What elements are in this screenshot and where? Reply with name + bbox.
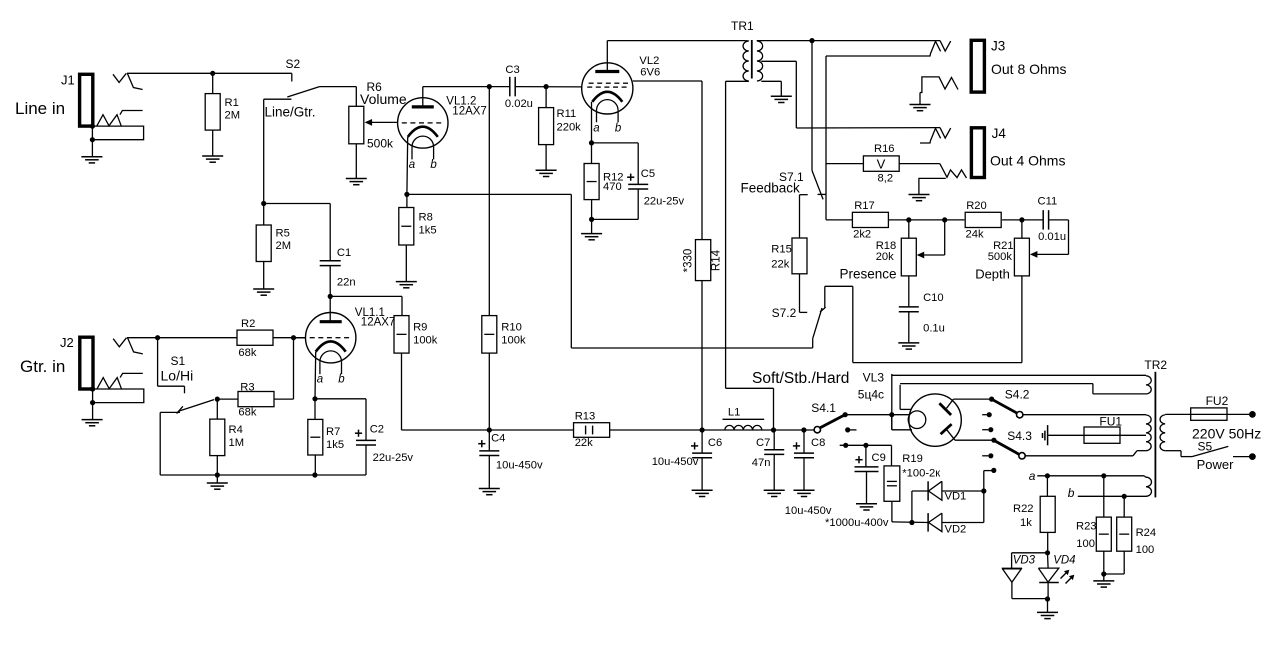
node C6 (700, 427, 705, 432)
switch S4.2 (989, 397, 994, 402)
svg-text:12AX7: 12AX7 (361, 317, 396, 329)
ground R6 (346, 178, 367, 180)
wire VL1.2 cathode to R8 (406, 137, 409, 195)
wire VD node to S4.3 contact (983, 471, 985, 523)
svg-text:470: 470 (603, 181, 622, 193)
svg-text:100k: 100k (413, 335, 438, 347)
svg-text:J3: J3 (991, 39, 1005, 54)
svg-text:Volume: Volume (360, 91, 407, 107)
svg-text:b: b (430, 159, 437, 171)
svg-text:TR1: TR1 (731, 19, 754, 33)
capacitor C6 10u-450v (701, 430, 703, 453)
wire heater b (1078, 495, 1146, 497)
svg-text:R22: R22 (1013, 503, 1034, 515)
wire VL2 plate to TR1 (606, 41, 608, 72)
switch S1 Lo/Hi (157, 338, 159, 387)
capacitor C5 22u-25v (592, 142, 639, 144)
svg-text:R11: R11 (557, 108, 577, 120)
svg-text:Out 8 Ohms: Out 8 Ohms (991, 61, 1066, 77)
svg-text:Feedback: Feedback (741, 181, 801, 196)
svg-text:1k: 1k (1020, 517, 1032, 529)
svg-text:R9: R9 (413, 322, 427, 334)
ground C8 (794, 489, 815, 491)
svg-text:2M: 2M (225, 110, 241, 122)
svg-text:b: b (338, 374, 345, 386)
resistor R5 2M (263, 204, 265, 226)
svg-text:R2: R2 (241, 318, 255, 330)
svg-text:24k: 24k (966, 229, 984, 241)
ground R23/R24 (1103, 574, 1105, 581)
resistor R16 8,2 (826, 163, 863, 165)
capacitor C8 10u-450v (803, 430, 805, 453)
svg-text:100: 100 (1076, 538, 1095, 550)
svg-text:C3: C3 (505, 64, 519, 76)
wire J2 to R2 (127, 337, 238, 339)
switch S7.2 (813, 308, 822, 339)
svg-text:0.02u: 0.02u (505, 98, 533, 110)
wire R2 to grid (273, 337, 306, 339)
beam tetrode VL2 6V6 (582, 63, 633, 114)
svg-text:22k: 22k (575, 437, 593, 449)
resistor R2 68k (237, 330, 273, 345)
svg-text:22n: 22n (337, 277, 356, 289)
ground R5 (253, 288, 274, 290)
svg-text:C8: C8 (811, 437, 825, 449)
wire VL2 screen to R14 (633, 80, 702, 82)
jack J1 Line in (80, 74, 93, 126)
svg-text:Presence: Presence (840, 267, 897, 282)
S4.1 spare contact (845, 427, 850, 432)
chassis ground FU1 (1047, 425, 1049, 445)
ground R12 (581, 233, 602, 235)
svg-text:*1000u-400v: *1000u-400v (825, 517, 889, 529)
svg-text:22k: 22k (771, 259, 789, 271)
J4 ring contact (940, 164, 967, 178)
svg-text:R10: R10 (501, 322, 522, 334)
wire grid node down to R3 (293, 338, 295, 399)
svg-text:68k: 68k (238, 347, 256, 359)
svg-text:S1: S1 (171, 354, 186, 368)
resistor R22 1k (1046, 476, 1048, 497)
resistor R14 *330 (695, 240, 710, 281)
svg-text:S4.3: S4.3 (1007, 429, 1032, 443)
S4.2 spare contacts (987, 412, 992, 417)
VD4 arrows (1061, 573, 1067, 579)
svg-text:100: 100 (1136, 544, 1155, 556)
wire S7.2 contact loop to R21 (825, 285, 853, 287)
svg-text:Gtr. in: Gtr. in (20, 357, 65, 376)
svg-text:68k: 68k (238, 407, 256, 419)
capacitor C3 0.02u (509, 77, 511, 97)
wire VL2 cathode (591, 102, 593, 143)
capacitor C11 0.01u (1042, 210, 1044, 230)
svg-text:J4: J4 (992, 126, 1007, 141)
svg-text:L1: L1 (728, 407, 740, 419)
wire heater a (1037, 475, 1144, 477)
svg-text:22u-25v: 22u-25v (373, 452, 414, 464)
svg-text:500k: 500k (988, 251, 1013, 263)
svg-text:Out 4 Ohms: Out 4 Ohms (990, 153, 1065, 169)
resistor R7 1k5 (314, 399, 316, 420)
svg-text:100k: 100k (501, 335, 526, 347)
svg-text:S2: S2 (286, 57, 301, 71)
svg-text:b: b (615, 123, 622, 135)
svg-text:*330: *330 (683, 249, 695, 273)
svg-text:R19: R19 (902, 453, 923, 465)
ground C9 (856, 503, 877, 505)
capacitor C9 *1000u-400v (865, 445, 867, 467)
svg-text:22u-25v: 22u-25v (644, 196, 685, 208)
switch S5 Power (1165, 450, 1181, 452)
svg-text:47n: 47n (752, 457, 771, 469)
TR2 core (1154, 372, 1156, 498)
resistor R8 1k5 (406, 194, 408, 207)
capacitor C10 0.1u (908, 276, 910, 307)
wire S2 to R6 (320, 86, 357, 88)
ground C10 (898, 342, 919, 344)
node R21 top (1019, 217, 1024, 222)
svg-text:500k: 500k (367, 137, 394, 151)
svg-text:Line/Gtr.: Line/Gtr. (265, 105, 316, 120)
svg-text:a: a (593, 123, 599, 135)
ground VD3/VD4 (1047, 599, 1049, 612)
svg-text:FU2: FU2 (1206, 394, 1229, 408)
svg-text:R24: R24 (1136, 527, 1157, 539)
svg-text:R4: R4 (229, 424, 243, 436)
potentiometer R6 Volume 500k (349, 106, 364, 144)
svg-text:S4.1: S4.1 (811, 401, 836, 415)
capacitor C2 22u-25v (315, 398, 366, 400)
svg-text:10u-450v: 10u-450v (652, 456, 699, 468)
jack J3 Out 8 Ohms (971, 40, 984, 92)
jack J4 Out 4 Ohms (971, 128, 984, 178)
node R1 top (210, 71, 215, 76)
svg-text:VL3: VL3 (863, 371, 885, 385)
svg-text:VL2: VL2 (639, 55, 659, 67)
svg-text:R1: R1 (225, 97, 239, 109)
svg-text:1k5: 1k5 (419, 225, 437, 237)
capacitor C4 10u-450v (488, 430, 490, 451)
wire VL1.2 plate to C3 (422, 87, 424, 107)
switch S2 Line/Gtr. (291, 73, 293, 81)
svg-text:S4.2: S4.2 (1005, 388, 1030, 402)
svg-text:20k: 20k (876, 251, 894, 263)
svg-text:Line in: Line in (15, 99, 65, 118)
potentiometer R21 500k Depth (1021, 220, 1023, 238)
resistor R1 (212, 73, 214, 93)
VL3 heater wires to TR2 (891, 374, 893, 430)
ground R1 (202, 155, 223, 157)
node R5 junction (261, 201, 266, 206)
svg-text:J1: J1 (61, 73, 75, 88)
TR2 winding leads (1146, 376, 1151, 394)
wire TR1 sec top to J3 (757, 40, 940, 42)
svg-text:VD4: VD4 (1053, 555, 1075, 567)
ground bottom rail (216, 475, 218, 483)
resistor R12 470 (591, 143, 593, 164)
svg-text:J2: J2 (60, 335, 74, 350)
node C8 (801, 427, 806, 432)
wire C9 row (891, 415, 893, 430)
svg-text:R17: R17 (854, 200, 875, 212)
svg-text:Soft/Stb./Hard: Soft/Stb./Hard (752, 370, 849, 387)
svg-text:R13: R13 (575, 411, 596, 423)
node R18 top (906, 217, 911, 222)
ground R8 (396, 281, 417, 283)
svg-text:C6: C6 (708, 437, 722, 449)
svg-text:C5: C5 (641, 168, 655, 180)
jack J2 Gtr. in (80, 337, 93, 389)
potentiometer R18 20k Presence (908, 220, 910, 238)
svg-text:S7.2: S7.2 (772, 306, 797, 320)
resistor R4 1M (216, 399, 218, 419)
resistor R11 220k (545, 87, 547, 108)
svg-text:FU1: FU1 (1099, 415, 1122, 429)
svg-text:a: a (1029, 469, 1036, 483)
S4.3 spare contact (988, 453, 993, 458)
ground J3 (910, 104, 931, 106)
resistor R23 100 (1103, 476, 1105, 517)
svg-text:Lo/Hi: Lo/Hi (161, 368, 194, 384)
svg-text:R20: R20 (966, 200, 987, 212)
svg-text:2k2: 2k2 (853, 229, 871, 241)
node R3/R4 (217, 398, 238, 400)
svg-text:R23: R23 (1076, 521, 1097, 533)
rectifier tube VL3 5ts4s (909, 394, 961, 446)
svg-text:0.01u: 0.01u (1038, 231, 1066, 243)
resistor R3 68k (238, 392, 274, 407)
wire TR1 sec bottom to ground (761, 80, 781, 82)
resistor R9 100k (394, 316, 409, 354)
svg-text:10u-450v: 10u-450v (496, 460, 543, 472)
svg-text:VD1: VD1 (945, 490, 967, 502)
bottom rail S1/R4/R7/C2 (160, 474, 366, 476)
switch S7.1 (811, 41, 813, 171)
svg-text:R3: R3 (240, 382, 254, 394)
svg-text:2M: 2M (276, 240, 292, 252)
svg-text:R5: R5 (276, 228, 290, 240)
svg-text:TR2: TR2 (1144, 358, 1167, 372)
ground C4 (479, 488, 500, 490)
svg-text:C4: C4 (491, 433, 505, 445)
wire TR1 sec mid to J4 (761, 60, 796, 62)
svg-text:10u-450v: 10u-450v (785, 505, 832, 517)
svg-text:a: a (409, 159, 415, 171)
resistor R15 22k (800, 194, 808, 196)
resistor R24 100 (1123, 496, 1125, 517)
capacitor C1 22n (264, 203, 331, 205)
svg-text:VD3: VD3 (1013, 555, 1036, 567)
fuse FU2 (1165, 413, 1252, 415)
svg-text:V: V (877, 157, 886, 172)
svg-text:R8: R8 (419, 212, 433, 224)
svg-text:*100-2к: *100-2к (902, 468, 940, 480)
svg-text:6V6: 6V6 (640, 67, 660, 79)
ground C6 (692, 489, 713, 491)
diode VD3 (1012, 552, 1048, 554)
svg-text:Power: Power (1197, 457, 1235, 472)
svg-text:a: a (317, 374, 323, 386)
node R7 top (312, 396, 317, 401)
svg-text:R7: R7 (326, 426, 340, 438)
B+ rail (402, 429, 574, 431)
ground J4 (909, 194, 930, 196)
node C7 (771, 427, 776, 432)
node C1/R9 (328, 294, 333, 299)
switch S4.3 (991, 438, 996, 443)
resistor R10 100k (488, 87, 490, 316)
svg-text:C11: C11 (1038, 196, 1058, 208)
resistor R19 *100-2k (884, 466, 900, 501)
svg-text:8,2: 8,2 (878, 173, 894, 185)
svg-text:1M: 1M (229, 437, 245, 449)
LED VD4 (1047, 553, 1050, 568)
resistor R20 24k (965, 212, 1001, 227)
wire VL1.1 cathode (314, 352, 317, 399)
svg-text:0.1u: 0.1u (923, 323, 945, 335)
diode VD2 (911, 491, 913, 523)
wire J1 tip to S2 (127, 72, 292, 74)
svg-text:C1: C1 (337, 247, 351, 259)
resistor R17 2k2 (826, 219, 852, 221)
svg-text:VD2: VD2 (945, 524, 967, 536)
svg-text:R15: R15 (771, 244, 792, 256)
ground R11 (536, 169, 557, 171)
svg-text:1k5: 1k5 (326, 439, 344, 451)
wire VL1.1 grid (294, 337, 306, 339)
svg-text:C9: C9 (872, 452, 886, 464)
resistor R13 22k (574, 423, 610, 438)
diode VD1 (912, 490, 928, 492)
svg-text:R16: R16 (874, 143, 895, 155)
fuse FU1 (1048, 434, 1146, 436)
svg-text:12AX7: 12AX7 (452, 106, 487, 118)
J3 switched arm to node (826, 55, 920, 57)
switch S4.1 (814, 427, 820, 433)
node R18 wiper (942, 217, 947, 222)
node R10 top (487, 84, 492, 89)
wire TR1 prim bottom to rail (726, 80, 749, 82)
inductor L1 (723, 418, 765, 420)
TR1 core (751, 40, 753, 79)
svg-text:C10: C10 (923, 292, 944, 304)
svg-text:Depth: Depth (975, 267, 1010, 282)
svg-text:C7: C7 (756, 437, 770, 449)
svg-text:5ц4с: 5ц4с (858, 388, 884, 402)
svg-text:C2: C2 (370, 424, 384, 436)
node S1 top (155, 335, 160, 340)
J3 ring contact (920, 77, 958, 93)
ground C7 (764, 489, 785, 491)
svg-text:220k: 220k (557, 122, 582, 134)
capacitor C7 47n (773, 430, 775, 450)
svg-text:R14: R14 (711, 249, 723, 271)
svg-text:b: b (1068, 486, 1075, 500)
feedback wire R8 to S7.2 (407, 193, 571, 195)
